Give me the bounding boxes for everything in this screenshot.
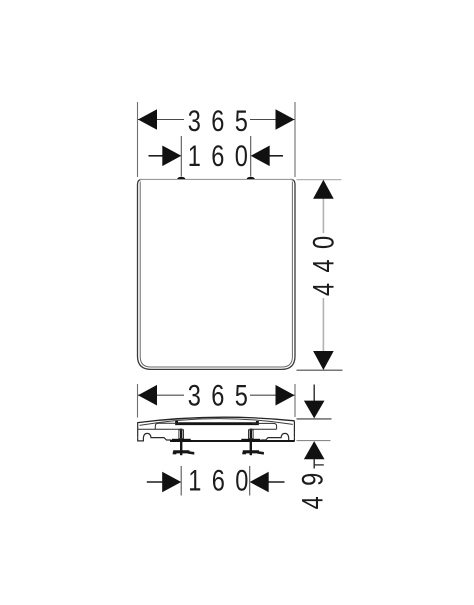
dimension 160 top: right leader line bbox=[269, 155, 284, 157]
seat front view: right bolt plate bbox=[249, 430, 254, 439]
dimension 365 top: right arrow bbox=[276, 109, 295, 130]
seat front view: central dark slot bar bbox=[177, 421, 258, 424]
dimension 365 bottom: right arrow bbox=[276, 385, 295, 406]
seat front view: right bolt pad bbox=[241, 439, 260, 442]
seat plan view: outer outline bbox=[138, 179, 296, 369]
dimension 365 top: dimension line right segment bbox=[250, 119, 295, 121]
dimension 160 top: right arrow bbox=[251, 146, 270, 167]
dimension 365 top: dimension line left segment bbox=[138, 119, 184, 121]
dimension 365 bottom: left extension line bbox=[137, 384, 139, 418]
dimension 440: bottom extension line bbox=[297, 369, 343, 371]
seat plan view: top hinge edge bbox=[140, 178, 293, 180]
seat front view: right bracket foot and bump bbox=[261, 433, 294, 441]
dimension 440: top arrow bbox=[313, 180, 334, 199]
seat plan view: left hinge bump bbox=[177, 177, 185, 179]
svg-text:365: 365 bbox=[188, 104, 259, 137]
seat plan view: inner contour line bbox=[140, 182, 292, 368]
dimension 160 bottom: right leader line bbox=[268, 481, 285, 483]
dimension 365 top: left arrow bbox=[138, 109, 157, 130]
dimension 160 top: left leader line bbox=[149, 155, 164, 157]
dimension 160 top: left arrow bbox=[162, 146, 181, 167]
seat front view: left hinge cover bbox=[138, 423, 181, 429]
dimension 49: top extension line bbox=[297, 418, 332, 420]
seat front view: right edge bbox=[293, 421, 295, 437]
dimension 365 bottom: dimension line left segment bbox=[138, 394, 184, 396]
dimension 440: dimension line lower segment bbox=[322, 298, 324, 352]
seat front view: left bolt shaft bbox=[180, 429, 182, 456]
seat front view: bottom edge bbox=[170, 440, 294, 442]
dimension 160 bottom: right extension line bbox=[249, 466, 251, 496]
svg-text:440: 440 bbox=[307, 225, 340, 296]
dimension 160 bottom: right arrow bbox=[250, 472, 269, 493]
dimension 160 bottom: left extension line bbox=[180, 466, 182, 496]
dimension 49: leader tick bbox=[314, 464, 324, 466]
seat plan view: right hinge bump bbox=[247, 177, 255, 179]
svg-text:160: 160 bbox=[188, 464, 259, 497]
dimension 365 bottom: dimension line right segment bbox=[250, 394, 295, 396]
svg-text:365: 365 bbox=[188, 379, 259, 412]
dimension 49: bottom extension line bbox=[297, 440, 331, 442]
seat front view: left bracket foot and bump bbox=[138, 433, 171, 441]
seat front view: lower surface curve bbox=[140, 419, 293, 426]
dimension 365 top: right extension line bbox=[294, 102, 296, 177]
seat front view: left wing nut bbox=[173, 450, 195, 454]
dimension 160 bottom: left arrow bbox=[162, 472, 181, 493]
dimension 160 top: right extension line bbox=[250, 136, 252, 177]
seat front view: top surface curve bbox=[138, 417, 295, 422]
seat front view: left edge bbox=[137, 422, 139, 437]
seat front view: left bolt pad bbox=[172, 439, 191, 442]
svg-text:160: 160 bbox=[188, 140, 259, 173]
dimension 440: dimension line upper segment bbox=[322, 198, 324, 233]
dimension 49: upper leader line bbox=[313, 385, 315, 402]
dimension 440: top extension line bbox=[297, 179, 342, 181]
dimension 365 bottom: right extension line bbox=[294, 384, 296, 417]
seat front view: left bolt plate bbox=[179, 430, 184, 439]
dimension 49: down arrow bbox=[304, 401, 325, 419]
dimension 365 top: left extension line bbox=[137, 102, 139, 177]
seat front view: right bolt shaft bbox=[250, 429, 252, 456]
dimension 160 top: left extension line bbox=[180, 136, 182, 177]
seat front view: right hinge cover bbox=[251, 423, 277, 429]
dimension 49: lower leader line bbox=[313, 459, 315, 469]
svg-text:49: 49 bbox=[296, 462, 329, 509]
dimension 440: bottom arrow bbox=[313, 351, 334, 370]
dimension 160 bottom: left leader line bbox=[147, 481, 164, 483]
seat front view: right wing nut bbox=[242, 450, 264, 454]
dimension 365 bottom: left arrow bbox=[138, 385, 157, 406]
dimension 49: up arrow bbox=[304, 441, 325, 459]
